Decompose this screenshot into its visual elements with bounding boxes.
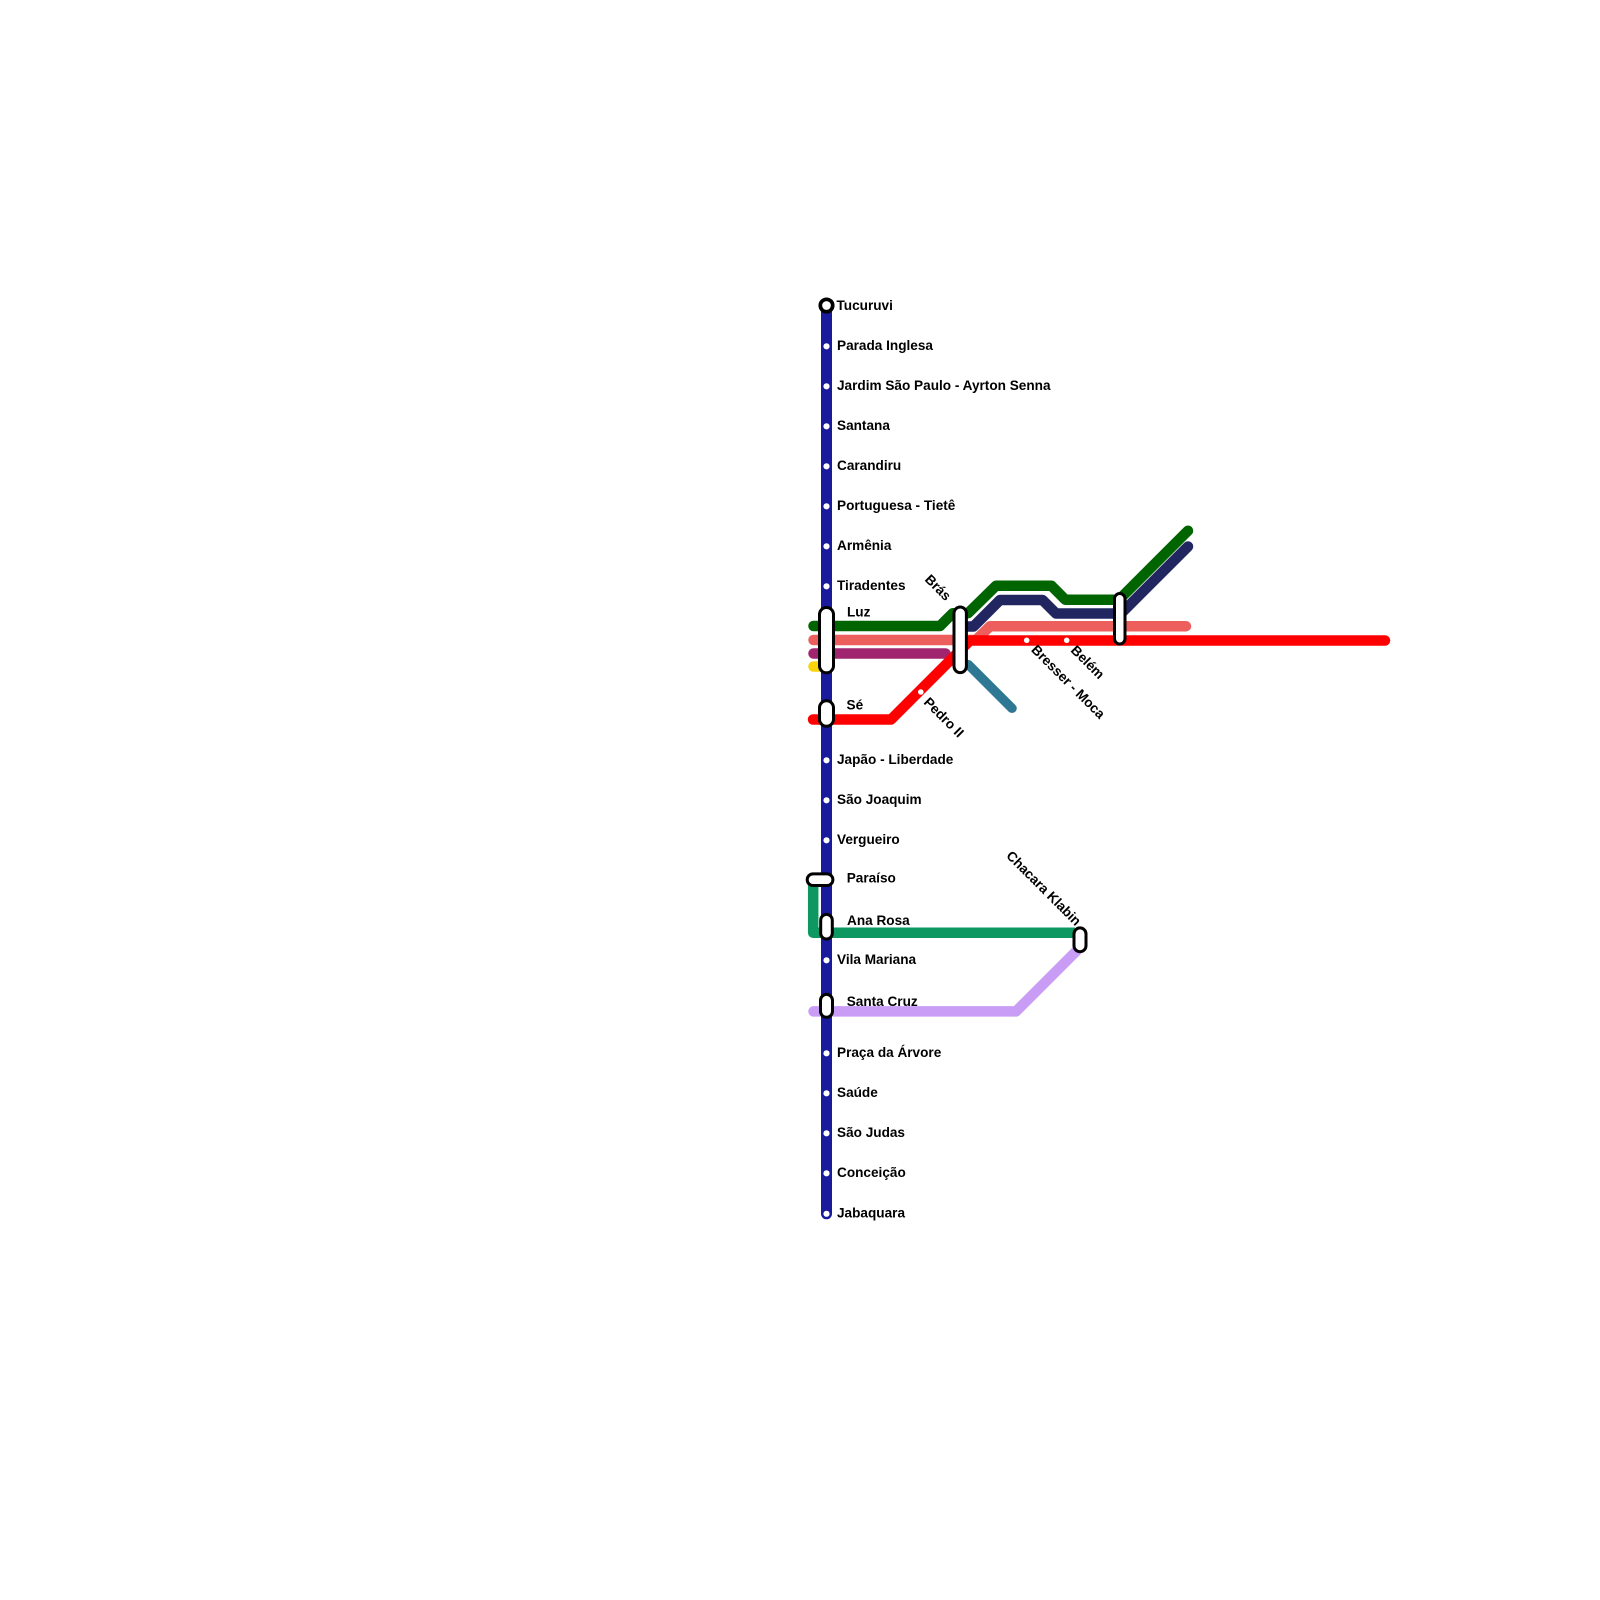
station dot Conceição [823, 1170, 829, 1176]
yellow line stub at Luz [814, 661, 822, 672]
svg-text:Ana Rosa: Ana Rosa [847, 913, 910, 928]
interchange Brás [954, 607, 966, 673]
station dot Armênia [823, 543, 829, 549]
interchange Sé [820, 701, 834, 727]
station dot São Judas [823, 1130, 829, 1136]
svg-text:São Judas: São Judas [837, 1125, 905, 1140]
svg-text:Portuguesa - Tietê: Portuguesa - Tietê [837, 498, 956, 513]
station dot Bresser - Moca [1024, 638, 1030, 644]
station dot São Joaquim [823, 797, 829, 803]
lilac line 5 (Santa Cruz–Chácara Klabin) [814, 951, 1077, 1012]
station dot Saúde [823, 1090, 829, 1096]
salmon CPTM line (Luz–east) [814, 626, 1187, 640]
svg-text:São Joaquim: São Joaquim [837, 792, 922, 807]
svg-text:Praça da Árvore: Praça da Árvore [837, 1045, 942, 1060]
svg-text:Luz: Luz [847, 605, 871, 620]
station dot Praça da Árvore [823, 1050, 829, 1056]
interchange Tatuapé [1115, 594, 1126, 645]
station dot Vila Mariana [823, 957, 829, 963]
station dot Parada Inglesa [823, 343, 829, 349]
svg-text:Japão - Liberdade: Japão - Liberdade [837, 752, 954, 767]
svg-text:Santa Cruz: Santa Cruz [847, 994, 918, 1009]
svg-text:Vergueiro: Vergueiro [837, 832, 900, 847]
interchange Ana Rosa [821, 914, 833, 939]
svg-text:Sé: Sé [847, 698, 864, 713]
station dot Belém [1064, 638, 1070, 644]
station dot Portuguesa-Tietê [823, 503, 829, 509]
svg-text:Parada Inglesa: Parada Inglesa [837, 338, 933, 353]
interchange Luz [820, 608, 834, 673]
station dot Japão-Liberdade [823, 757, 829, 763]
svg-text:Jardim São Paulo - Ayrton Senn: Jardim São Paulo - Ayrton Senna [837, 378, 1051, 393]
station dot Jardim São Paulo [823, 383, 829, 389]
station dot Pedro II [918, 689, 924, 695]
svg-text:Tucuruvi: Tucuruvi [837, 298, 893, 313]
interchange Santa Cruz [821, 994, 833, 1017]
interchange Chácara Klabin [1074, 928, 1086, 952]
station dot Vergueiro [823, 837, 829, 843]
terminus ring Tucuruvi [820, 299, 832, 311]
line 2 green (Paraíso–Ana Rosa–Chácara Klabin) [813, 877, 1075, 933]
blue line 1 (Tucuruvi–Jabaquara) [821, 306, 832, 1214]
svg-text:Santana: Santana [837, 418, 890, 433]
station dot Jabaquara [823, 1211, 829, 1217]
svg-text:Tiradentes: Tiradentes [837, 578, 906, 593]
dark green CPTM line (Luz–Brás–east) [814, 531, 1189, 626]
red line 3 (Sé–Pedro II–Brás–east) [813, 641, 1385, 720]
svg-text:Armênia: Armênia [837, 538, 892, 553]
svg-text:Carandiru: Carandiru [837, 458, 901, 473]
teal line (Brás–southeast) [969, 665, 1013, 709]
svg-text:Vila Mariana: Vila Mariana [837, 952, 917, 967]
svg-text:Conceição: Conceição [837, 1165, 906, 1180]
navy CPTM line (Brás–east) [960, 547, 1188, 627]
svg-text:Saúde: Saúde [837, 1085, 878, 1100]
svg-text:Paraíso: Paraíso [847, 870, 896, 885]
interchange Paraíso [807, 874, 833, 886]
purple line (Luz–Brás) [814, 648, 946, 659]
station dot Santana [823, 423, 829, 429]
station dot Tiradentes [823, 583, 829, 589]
station dot Carandiru [823, 463, 829, 469]
svg-text:Jabaquara: Jabaquara [837, 1205, 905, 1220]
